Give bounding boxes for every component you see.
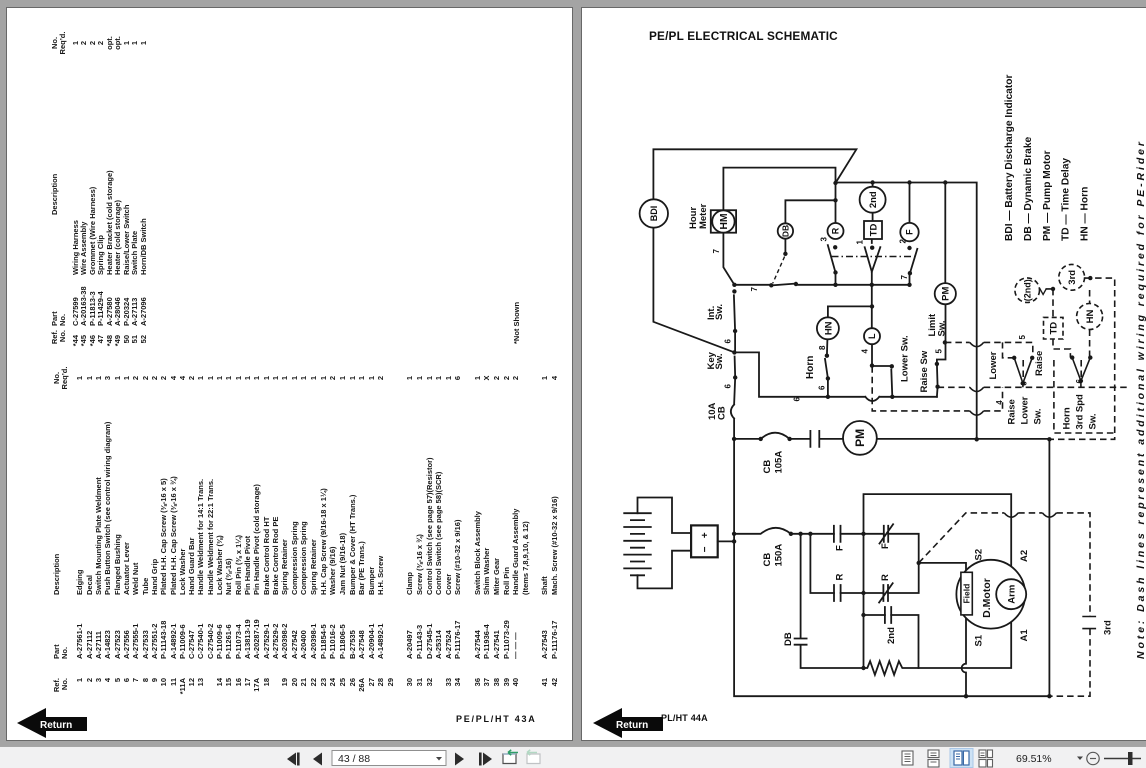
wire: 2nd contact line: [864, 615, 919, 668]
svg-text:7: 7: [750, 287, 759, 292]
svg-text:Note: Dash lines represent add: Note: Dash lines represent additional wi…: [1135, 139, 1146, 659]
capacitor DB branch: [795, 534, 864, 668]
pump motor PM: [843, 421, 877, 455]
svg-text:F: F: [905, 229, 915, 235]
wire: main left bus with 10A CB: [731, 378, 1050, 697]
coil F: [900, 223, 918, 241]
relay TD: [864, 221, 882, 239]
svg-text:2nd: 2nd: [868, 191, 879, 208]
svg-text:A2: A2: [1019, 550, 1030, 562]
svg-text:2: 2: [898, 239, 907, 244]
capacitor 3rd: [1082, 617, 1096, 629]
contact F blade: [910, 183, 918, 285]
indicator BDI: [640, 199, 668, 227]
left page: [6, 7, 573, 741]
contact F bars: [834, 526, 841, 542]
svg-text:1: 1: [855, 240, 864, 245]
wire: key node to horn switch: [734, 352, 937, 401]
wire: CB 105A line with breaker and contact to pump motor: [734, 431, 1049, 447]
svg-text:F: F: [880, 543, 891, 549]
field winding box: [961, 572, 972, 615]
coil 2nd: [860, 187, 886, 213]
horn HN: [817, 317, 839, 339]
svg-text:69.51%: 69.51%: [1016, 753, 1052, 765]
coil R: [828, 223, 844, 239]
battery connector box: [691, 525, 718, 557]
svg-text:7: 7: [900, 275, 909, 280]
svg-text:6: 6: [724, 339, 733, 344]
coil DB: [778, 223, 793, 238]
svg-text:A1: A1: [1019, 629, 1030, 642]
motor D.Motor: [956, 560, 1025, 629]
svg-text:Raise: Raise: [1006, 399, 1017, 424]
wire: armature loop A2: [864, 494, 1012, 579]
svg-text:CB: CB: [762, 553, 773, 567]
lamp L: [864, 328, 880, 344]
wire: DB coil bottom stub: [784, 239, 786, 254]
contact R-slashed bars: [879, 583, 893, 602]
coil dashed HN: [1077, 304, 1103, 330]
svg-text:6: 6: [724, 384, 733, 389]
contact R blade: [828, 245, 836, 285]
svg-text:Meter: Meter: [698, 203, 709, 229]
svg-text:4: 4: [995, 400, 1004, 405]
footer right page: [661, 713, 708, 723]
wire: hour-meter bottom to bus: [723, 233, 734, 285]
wire: R contact line: [810, 534, 918, 593]
svg-text:3rd: 3rd: [1067, 270, 1078, 285]
switch Lower Sw. blade: [891, 370, 937, 397]
wire: bus 7: [734, 284, 909, 286]
svg-text:7: 7: [712, 249, 721, 254]
svg-text:8: 8: [818, 345, 827, 350]
wire: field S1 to bottom bus with hop: [962, 615, 966, 696]
junction dots: [732, 180, 1093, 698]
svg-text:Sw.: Sw.: [714, 353, 725, 369]
switch Raise Sw. blade and limit stair: [937, 304, 946, 386]
wire: DB coil top: [785, 200, 835, 223]
svg-text:Sw.: Sw.: [1032, 408, 1043, 424]
svg-text:Horn: Horn: [805, 356, 816, 379]
wire dashed: 5 line to PE-rider raise contact: [945, 342, 1033, 357]
svg-text:L: L: [867, 333, 877, 339]
svg-text:5: 5: [1018, 335, 1027, 340]
wire: HN top to TD rail: [828, 285, 872, 328]
wire dashed: 3rd circle to right rail: [1049, 278, 1114, 439]
battery: [624, 513, 651, 575]
wire dashed: 2nd pickup to TD box: [1046, 289, 1071, 358]
wire: BDI bottom to key-switch node: [653, 226, 734, 352]
wire: hour-meter top feed and R coil vertical: [723, 168, 835, 223]
svg-text:HN: HN: [1085, 310, 1096, 324]
wire: battery box to main bus: [718, 540, 734, 542]
hour meter HM: [711, 210, 736, 233]
switch dashed Raise/Lower SPDT: [1014, 358, 1032, 388]
switch Int. Sw. blade: [734, 295, 735, 352]
svg-text:HN — Horn: HN — Horn: [1079, 187, 1090, 241]
toolbar: [0, 746, 1146, 768]
svg-text:R: R: [831, 227, 841, 234]
svg-text:F: F: [834, 545, 845, 551]
svg-text:Arm: Arm: [1007, 585, 1018, 604]
return button left: [16, 706, 96, 738]
svg-text:43 / 88: 43 / 88: [338, 753, 370, 765]
right page: [581, 7, 1146, 741]
svg-text:TD: TD: [1049, 322, 1060, 335]
wire dashed: horn SPDT box: [1054, 360, 1115, 433]
resistor squiggle 2nd pickup: [1037, 289, 1047, 295]
wire: upper PM to top line: [944, 183, 946, 283]
svg-text:S2: S2: [973, 549, 984, 561]
svg-text:Return: Return: [616, 720, 648, 731]
svg-text:HM: HM: [718, 213, 730, 230]
svg-text:2nd: 2nd: [886, 627, 897, 644]
wire: S2 to field: [919, 563, 966, 572]
contact 2nd bars: [885, 607, 891, 623]
svg-text:TD — Time Delay: TD — Time Delay: [1061, 158, 1072, 241]
svg-text:4: 4: [860, 349, 869, 354]
contact F-slashed bars: [880, 524, 894, 543]
svg-text:150A: 150A: [773, 544, 784, 567]
svg-text:DB: DB: [783, 632, 794, 646]
switch dashed Horn/3rd SPDT: [1072, 358, 1090, 388]
svg-text:3rd: 3rd: [1102, 620, 1113, 635]
svg-text:6: 6: [792, 397, 801, 402]
legend: [1004, 75, 1090, 241]
svg-text:PM: PM: [941, 286, 952, 300]
pin number labels: [712, 237, 1084, 405]
mechanical link R TD F: [832, 256, 917, 258]
svg-text:Horn: Horn: [1061, 407, 1072, 429]
mechanical link DB to bus blade: [773, 257, 785, 284]
svg-text:Lower Sw.: Lower Sw.: [899, 335, 910, 382]
wire: BDI top to node junction: [653, 149, 856, 199]
svg-text:Sw.: Sw.: [1087, 413, 1098, 429]
wire: battery terminals: [638, 498, 692, 589]
svg-text:PM: PM: [853, 429, 867, 447]
svg-text:DB: DB: [780, 225, 790, 237]
wire dashed: HN branch: [1089, 290, 1091, 358]
svg-text:CB: CB: [716, 406, 727, 420]
svg-text:TD: TD: [868, 224, 879, 237]
svg-text:5: 5: [934, 349, 943, 354]
wire: CB 150A line with F contacts: [734, 528, 919, 563]
svg-text:CB: CB: [762, 460, 773, 474]
svg-text:Return: Return: [40, 720, 72, 731]
svg-text:6: 6: [1020, 381, 1029, 386]
svg-text:R: R: [880, 574, 891, 581]
svg-text:−: −: [700, 546, 711, 552]
svg-text:Raise Sw: Raise Sw: [919, 350, 930, 392]
svg-text:BDI — Battery Discharge Indica: BDI — Battery Discharge Indicator: [1004, 75, 1015, 241]
svg-text:6: 6: [817, 385, 826, 390]
wire dashed: lower contact stub: [1003, 342, 1015, 357]
svg-text:Lower: Lower: [1019, 396, 1030, 424]
svg-text:3rd Spd: 3rd Spd: [1074, 394, 1085, 430]
svg-text:+: +: [700, 532, 711, 538]
svg-text:(2nd): (2nd): [1022, 279, 1032, 301]
contact TD fork: [865, 239, 881, 285]
wire: right rail of motor circuit: [1048, 439, 1050, 696]
wire: L bottom to Lower Sw: [872, 344, 892, 366]
coil PM upper: [935, 283, 956, 304]
svg-text:Sw.: Sw.: [936, 320, 947, 336]
svg-text:6: 6: [1075, 379, 1084, 384]
svg-text:DB — Dynamic Brake: DB — Dynamic Brake: [1023, 136, 1034, 241]
svg-text:3: 3: [819, 237, 828, 242]
relay dashed TD: [1044, 317, 1064, 339]
svg-text:S1: S1: [973, 634, 984, 646]
wire: 2nd coil stubs: [872, 183, 874, 221]
coil dashed 3rd: [1059, 264, 1085, 290]
switch Horn blade: [825, 339, 828, 397]
armature Arm: [996, 579, 1026, 609]
svg-text:HN: HN: [823, 321, 834, 335]
svg-text:R: R: [834, 574, 845, 581]
return button right: [592, 706, 672, 738]
svg-text:PM — Pump Motor: PM — Pump Motor: [1042, 150, 1053, 241]
svg-text:BDI: BDI: [649, 206, 659, 222]
wire dashed: common line: [938, 386, 1130, 388]
svg-text:Field: Field: [962, 584, 972, 604]
svg-text:Raise: Raise: [1034, 351, 1045, 376]
svg-text:Lower: Lower: [988, 351, 999, 379]
wire dashed: L junction down and lower dashed run: [872, 366, 1002, 411]
switch Key Sw. blade: [734, 357, 737, 378]
svg-text:105A: 105A: [773, 451, 784, 474]
coil dashed (2nd): [1015, 278, 1040, 303]
wire: top distribution line to PM feed vertical: [836, 183, 977, 440]
wire dashed: S2 diagonal to 3rd capacitor branch: [919, 513, 1090, 696]
svg-text:Sw.: Sw.: [714, 304, 725, 320]
wire: left rail: [863, 534, 865, 668]
contact R bars: [834, 585, 841, 601]
resistor and A1 line: [864, 609, 1012, 675]
svg-text:D.Motor: D.Motor: [981, 578, 993, 618]
